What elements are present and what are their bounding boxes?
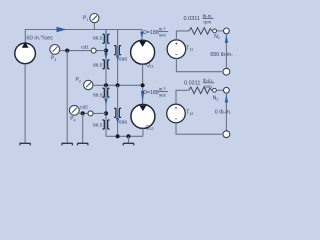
svg-text:650 lb-in.: 650 lb-in. xyxy=(210,52,233,58)
gauge P2 xyxy=(84,80,93,89)
node N1 (small open circle) xyxy=(213,29,217,33)
svg-text:696: 696 xyxy=(119,119,127,125)
node dot: P4 tap junction xyxy=(81,111,85,115)
svg-text:0 lb-in.: 0 lb-in. xyxy=(215,110,232,116)
node N2 (small open circle) xyxy=(213,88,217,92)
orifice 696 upper xyxy=(114,46,121,55)
svg-text:88.5: 88.5 xyxy=(93,93,103,99)
wire: RAIL4 ground stem xyxy=(128,136,130,142)
corner terminal (open circle) bottom xyxy=(223,68,230,75)
wire: Q12 bottom to RAIL4 xyxy=(142,128,144,136)
node dot: P3 tap junction xyxy=(65,49,69,53)
wire: T12 top to resistor xyxy=(176,90,189,104)
wire: pump top riser and RAIL1 to motor Q11 xyxy=(25,30,142,44)
svg-text:lb-in.: lb-in. xyxy=(203,78,213,83)
svg-text:88.5: 88.5 xyxy=(93,35,103,41)
svg-text:0.0311: 0.0311 xyxy=(184,16,200,22)
wire resistor to corner xyxy=(212,89,224,91)
svg-text:88.5: 88.5 xyxy=(93,63,103,69)
wire: T11 top to resistor xyxy=(176,31,189,40)
ground G2 (tank) xyxy=(62,143,73,145)
svg-text:cd2: cd2 xyxy=(80,105,88,111)
node cd2 (open circle) xyxy=(88,111,93,116)
speed arrow up (650 lb-in.) xyxy=(225,35,228,43)
svg-text:D=188: D=188 xyxy=(143,90,159,96)
gauge P3 xyxy=(50,45,60,55)
wire: pump bottom to ground G1 xyxy=(24,64,26,143)
svg-text:0.0311: 0.0311 xyxy=(184,80,200,86)
orifice 88.5 c xyxy=(103,88,110,97)
svg-text:88.5: 88.5 xyxy=(93,123,103,129)
pump QS (flow source) xyxy=(15,43,36,64)
node dot line A / RAIL2 xyxy=(104,83,108,87)
orifice 88.5 b xyxy=(103,60,110,69)
corner terminal (open circle) top xyxy=(224,87,230,93)
svg-text:60 in.3/sec: 60 in.3/sec xyxy=(27,34,54,42)
orifice 696 lower xyxy=(114,108,121,117)
wire: loop bottom rail and up to T11 xyxy=(176,59,223,72)
ground G1 (tank) xyxy=(20,143,31,145)
gauge P4 xyxy=(69,105,79,115)
corner terminal (open circle) bottom xyxy=(223,131,230,138)
ground G3 (tank) xyxy=(77,143,88,145)
svg-text:cd1: cd1 xyxy=(81,45,89,51)
orifice 88.5 d xyxy=(103,120,110,129)
node dot motor column / RAIL2 xyxy=(141,83,145,87)
label D=188 in.3/sec (upper) xyxy=(143,26,168,37)
line A lower: RAIL2 to RAIL4 xyxy=(105,85,107,136)
motor Q12 xyxy=(131,104,155,128)
gauge P1 xyxy=(93,23,95,30)
wire resistor to corner xyxy=(212,30,224,32)
line B (motor leakage) upper: RAIL1 to RAIL2 xyxy=(117,30,119,86)
node dot line B / RAIL4 xyxy=(116,134,120,138)
ground G4 (tank) xyxy=(123,143,134,145)
wire RAIL2 xyxy=(93,84,143,86)
node dot ground stem / RAIL4 xyxy=(126,134,130,138)
orifice 88.5 a xyxy=(103,34,110,43)
wire: right branch down xyxy=(225,93,227,130)
resistor R2 0.0311 lb-in/rpm xyxy=(189,87,212,94)
corner terminal (open circle) top xyxy=(224,28,230,34)
svg-text:696: 696 xyxy=(119,56,127,62)
node dot line B / RAIL2 xyxy=(116,83,120,87)
node dot cd2 junction on line A xyxy=(104,111,108,115)
node cd1 (open circle) xyxy=(91,48,96,53)
flow arrow down into Q11 xyxy=(140,32,143,39)
motor Q11 xyxy=(131,40,155,64)
wire: loop bottom rail and up to T12 xyxy=(176,123,224,134)
svg-text:lb-in.: lb-in. xyxy=(203,13,213,18)
wire: drain from P3 junction to ground G2 xyxy=(66,51,68,143)
torque source T12 xyxy=(167,104,186,123)
svg-text:sec: sec xyxy=(159,33,167,38)
line B lower: RAIL2 to RAIL4 xyxy=(117,85,119,136)
wire RAIL4 xyxy=(106,135,143,137)
node: cd1 junction dot on line A xyxy=(104,49,108,53)
torque source T11 xyxy=(167,40,186,59)
flow arrow down on line A xyxy=(104,53,107,59)
flow arrow down on line A lower xyxy=(104,99,107,105)
svg-text:rpm: rpm xyxy=(204,84,212,89)
svg-text:D=188: D=188 xyxy=(143,30,159,36)
wire: right branch down xyxy=(225,34,227,68)
wire: Q11 bottom through RAIL2 into Q12 top xyxy=(142,64,144,104)
line A (leakage branch) upper: RAIL1 to RAIL2 xyxy=(105,30,107,86)
wire: drain from P4 junction to ground G3 xyxy=(82,113,84,142)
flow arrow on RAIL1 xyxy=(57,27,67,32)
speed arrow up (0 lb-in.) xyxy=(225,94,228,102)
svg-text:rpm: rpm xyxy=(203,19,211,24)
svg-text:sec: sec xyxy=(159,93,167,98)
label D=188 in.3/sec (lower) xyxy=(143,86,168,97)
wire: cd1 rail xyxy=(60,50,106,52)
resistor R1 0.0311 lb-in/rpm xyxy=(189,28,212,35)
flow arrow down into Q12 xyxy=(141,91,144,103)
wire: cd2 rail xyxy=(79,112,106,114)
